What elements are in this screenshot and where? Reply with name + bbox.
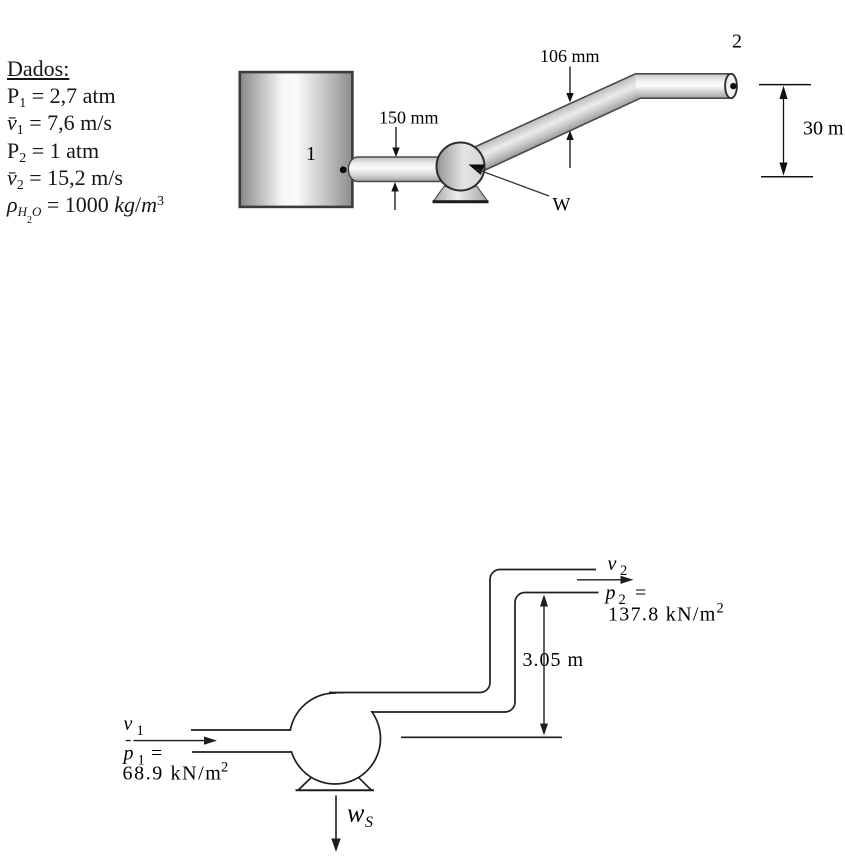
svg-text:S: S bbox=[365, 814, 373, 831]
v2 arrow bbox=[577, 579, 622, 581]
svg-text:1: 1 bbox=[137, 723, 144, 739]
svg-text:p: p bbox=[122, 743, 134, 765]
outlet opening mask bbox=[336, 694, 503, 712]
svg-text:2: 2 bbox=[732, 31, 742, 53]
svg-text:3.05 m: 3.05 m bbox=[523, 649, 585, 671]
svg-text:30 m: 30 m bbox=[803, 118, 844, 140]
pedestal right edge bbox=[358, 777, 371, 790]
pump W (circle) bbox=[437, 143, 485, 191]
outlet pipe outer line bbox=[329, 570, 596, 693]
pedestal base line bbox=[296, 789, 375, 791]
30m dim top tick bbox=[759, 84, 811, 86]
arrow 106mm lower bbox=[569, 139, 571, 168]
3.05m dim arrow bbox=[543, 604, 545, 726]
svg-text:1: 1 bbox=[306, 143, 316, 165]
arrow 106mm upper bbox=[569, 67, 571, 94]
svg-text:68.9 kN/m: 68.9 kN/m bbox=[123, 763, 223, 785]
svg-text:v: v bbox=[608, 553, 617, 575]
inlet pipe bottom line bbox=[192, 751, 292, 753]
pedestal left edge bbox=[298, 777, 312, 790]
30m dim vertical arrow bbox=[783, 92, 785, 170]
svg-text:150 mm: 150 mm bbox=[379, 108, 439, 128]
discharge pipe 106mm (inclined + horizontal) bbox=[466, 74, 728, 174]
v1 arrow bbox=[126, 740, 206, 742]
arrow 150mm upper bbox=[395, 127, 397, 148]
svg-text:=: = bbox=[635, 582, 646, 604]
node dot point 2 bbox=[730, 83, 736, 89]
30m dim bottom tick bbox=[761, 176, 813, 178]
W pointer arrowhead bbox=[469, 165, 485, 175]
svg-text:2: 2 bbox=[717, 601, 724, 617]
Ws arrow bbox=[335, 796, 337, 841]
datum reference line bbox=[401, 736, 562, 738]
pump pedestal bbox=[434, 187, 488, 202]
pipe end cap at point 2 bbox=[725, 74, 737, 98]
svg-text:2: 2 bbox=[620, 563, 627, 579]
suction pipe 150mm bbox=[348, 157, 443, 182]
arrow 150mm lower bbox=[394, 191, 396, 210]
inlet pipe top line bbox=[191, 729, 291, 731]
svg-text:W: W bbox=[553, 195, 571, 216]
data text block "Dados" bbox=[7, 55, 164, 221]
svg-text:v: v bbox=[124, 713, 133, 735]
node dot point 1 bbox=[340, 166, 347, 173]
pedestal base line bbox=[433, 200, 489, 203]
inlet opening mask bbox=[191, 731, 302, 751]
svg-text:2: 2 bbox=[221, 760, 228, 776]
pump circle bbox=[290, 693, 381, 784]
svg-text:106 mm: 106 mm bbox=[540, 46, 600, 66]
outlet pipe inner line bbox=[372, 593, 599, 713]
svg-text:=: = bbox=[151, 743, 162, 765]
svg-text:w: w bbox=[347, 799, 365, 828]
svg-text:p: p bbox=[604, 582, 616, 604]
W leader line bbox=[476, 169, 549, 196]
tank (reservoir 1) bbox=[240, 72, 353, 207]
svg-text:137.8 kN/m: 137.8 kN/m bbox=[608, 604, 717, 626]
